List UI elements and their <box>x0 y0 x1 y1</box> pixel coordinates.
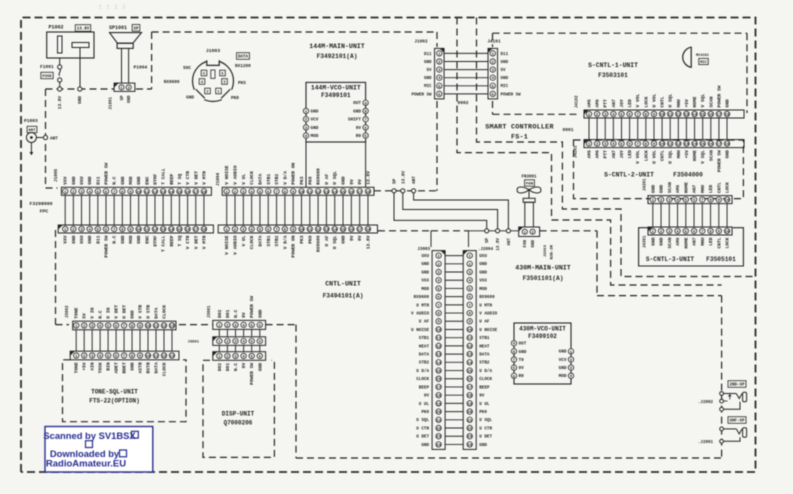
svg-text:ANT: ANT <box>412 176 417 184</box>
faint scan artifact top <box>98 4 125 11</box>
svg-text:13: 13 <box>324 191 329 195</box>
svg-text:12: 12 <box>162 325 167 329</box>
svg-text:11: 11 <box>307 228 312 232</box>
svg-text:5V: 5V <box>427 69 433 73</box>
svg-text:CNTL: CNTL <box>716 237 722 248</box>
svg-text:Q7000206: Q7000206 <box>224 419 253 426</box>
svg-text:GND: GND <box>341 235 347 244</box>
svg-text:AM5: AM5 <box>587 150 593 159</box>
svg-text:GND: GND <box>130 362 136 371</box>
svg-text:J2003: J2003 <box>544 244 548 257</box>
svg-text:V AUDIO: V AUDIO <box>411 311 429 316</box>
svg-text:MOD: MOD <box>128 176 134 185</box>
svg-text:12: 12 <box>316 191 321 195</box>
144M-MAIN-UNIT boundary (dashed) <box>46 32 438 191</box>
svg-text:23: 23 <box>467 436 472 440</box>
wire 13.8V to 430M <box>403 193 498 229</box>
svg-text:D02: D02 <box>217 363 223 372</box>
svg-text:18: 18 <box>366 191 371 195</box>
svg-text:13: 13 <box>467 354 472 358</box>
svg-text:PK0: PK0 <box>479 410 487 415</box>
fuse F1001 <box>40 64 62 87</box>
144M-VCO-UNIT F3499101 <box>303 82 368 142</box>
svg-text:S-CNTL-3-UNIT: S-CNTL-3-UNIT <box>646 256 695 263</box>
svg-text:CNTL: CNTL <box>660 150 666 161</box>
svg-text:U SQL: U SQL <box>479 418 492 423</box>
svg-text:24: 24 <box>436 444 441 448</box>
svg-text:V SQL: V SQL <box>700 93 706 107</box>
svg-text:F3504000: F3504000 <box>673 172 703 179</box>
svg-text:UXU: UXU <box>79 176 85 185</box>
svg-text:ENC: ENC <box>144 235 150 244</box>
svg-text:U MTR: U MTR <box>479 303 492 308</box>
svg-text:U AF: U AF <box>324 235 330 246</box>
svg-text:LED: LED <box>708 185 714 194</box>
svg-text:21: 21 <box>436 419 441 423</box>
connector J1005 (144M main, 18 pin) <box>54 163 211 196</box>
wire 144M-VCO to J1004 <box>306 142 366 187</box>
svg-text:GND: GND <box>186 96 194 101</box>
svg-text:2: 2 <box>206 90 208 94</box>
svg-text:BEEP: BEEP <box>169 174 175 185</box>
svg-text:STB2: STB2 <box>419 361 430 366</box>
svg-text:17: 17 <box>193 191 198 195</box>
svg-text:J4301: J4301 <box>644 235 648 248</box>
svg-text:SP: SP <box>133 27 139 31</box>
svg-text:J1004: J1004 <box>216 172 221 186</box>
svg-text:13.8V: 13.8V <box>58 96 63 110</box>
wires J3001 to J3501 <box>219 329 259 351</box>
svg-text:T CALL: T CALL <box>161 168 167 185</box>
svg-text:BDET: BDET <box>122 362 128 373</box>
svg-text:11: 11 <box>307 191 312 195</box>
430M-VCO-UNIT F3499102 <box>511 323 573 384</box>
svg-text:144M-VCO-UNIT: 144M-VCO-UNIT <box>311 85 361 92</box>
svg-text:MC4101: MC4101 <box>696 54 709 58</box>
svg-text:GND: GND <box>650 237 656 246</box>
svg-text:D01: D01 <box>225 363 231 372</box>
svg-text:MIC: MIC <box>700 61 708 65</box>
svg-text:U DET: U DET <box>122 305 128 319</box>
svg-text:13: 13 <box>684 143 689 147</box>
svg-text:POWER SW: POWER SW <box>104 235 110 257</box>
svg-text:16: 16 <box>436 378 441 382</box>
svg-text:GND: GND <box>421 270 429 275</box>
svg-text:T9: T9 <box>519 358 525 363</box>
svg-text:VXV: VXV <box>63 176 69 185</box>
svg-text:D01: D01 <box>225 309 231 318</box>
svg-text:JOY: JOY <box>619 150 625 159</box>
svg-text:F3501101(A): F3501101(A) <box>523 275 564 282</box>
FPC label F3298000 <box>29 201 52 215</box>
svg-text:F3503101: F3503101 <box>598 72 628 79</box>
svg-text:.J2002: .J2002 <box>698 401 714 405</box>
svg-text:POWER SW: POWER SW <box>104 163 110 185</box>
svg-text:B2B-2R: B2B-2R <box>551 244 555 259</box>
svg-text:V DET: V DET <box>114 305 120 319</box>
svg-text:15: 15 <box>467 370 472 374</box>
svg-text:13: 13 <box>161 191 166 195</box>
svg-text:20: 20 <box>467 411 472 415</box>
svg-text:POWER SW: POWER SW <box>249 363 255 385</box>
svg-text:V MTR: V MTR <box>201 171 207 185</box>
svg-text:GND: GND <box>421 443 429 448</box>
svg-text:MOD: MOD <box>128 235 134 244</box>
svg-text:6: 6 <box>203 72 205 76</box>
svg-text:SHIFT: SHIFT <box>348 118 362 123</box>
svg-text:U VOL: U VOL <box>651 93 657 107</box>
svg-text:50C: 50C <box>183 66 191 71</box>
svg-text:FTS-22(OPTION): FTS-22(OPTION) <box>89 398 139 405</box>
svg-text:BEEP: BEEP <box>479 385 490 390</box>
svg-text:10: 10 <box>660 113 665 117</box>
svg-text:18: 18 <box>725 143 730 147</box>
svg-text:U AF: U AF <box>419 320 430 325</box>
svg-text:CLOCK: CLOCK <box>479 377 492 382</box>
connector J3003 (24 pin) <box>411 248 445 449</box>
svg-text:HEAT: HEAT <box>479 344 490 349</box>
svg-text:S-CNTL-2-UNIT: S-CNTL-2-UNIT <box>604 172 654 179</box>
cable label 0001 <box>562 127 573 133</box>
svg-text:F3505101: F3505101 <box>706 256 736 263</box>
svg-text:F3499101: F3499101 <box>321 92 351 99</box>
DISP-UNIT boundary (dashed) <box>203 360 274 457</box>
svg-text:SCAN: SCAN <box>708 150 714 161</box>
svg-text:CLOCK: CLOCK <box>249 171 255 185</box>
wire SP to 430M <box>394 193 487 229</box>
svg-text:RX9600: RX9600 <box>479 295 495 300</box>
svg-text:17: 17 <box>436 386 441 390</box>
svg-text:9V: 9V <box>241 363 247 369</box>
CNTL connector row (mates J1004) <box>218 225 377 258</box>
svg-text:GND: GND <box>257 363 263 372</box>
svg-text:16: 16 <box>708 143 713 147</box>
svg-text:UXU: UXU <box>479 254 487 259</box>
svg-text:LOCK: LOCK <box>725 237 731 248</box>
pin labels J1003 <box>164 64 251 101</box>
svg-text:0002: 0002 <box>457 100 468 106</box>
svg-text:13.8V: 13.8V <box>77 28 90 32</box>
TONE-SQL-UNIT boundary (dashed) <box>63 360 187 422</box>
wires J3002 to TONE-SQL unit <box>76 330 172 351</box>
svg-text:V CTR: V CTR <box>185 235 191 249</box>
svg-text:TONE-SQL-UNIT: TONE-SQL-UNIT <box>91 389 138 396</box>
svg-text:12: 12 <box>153 191 158 195</box>
connector J3001 (6 pin) <box>208 296 266 330</box>
svg-text:U VOL: U VOL <box>651 150 657 164</box>
svg-text:16: 16 <box>349 228 354 232</box>
svg-text:U D/A: U D/A <box>479 369 492 374</box>
svg-text:D11: D11 <box>95 176 101 185</box>
svg-text:VXV: VXV <box>63 235 69 244</box>
S-CNTL-2-UNIT boundary (dashed) <box>574 140 744 199</box>
svg-text:GND: GND <box>311 126 319 131</box>
svg-text:AIN: AIN <box>90 362 96 371</box>
svg-text:14: 14 <box>692 113 697 117</box>
svg-text:GND: GND <box>501 77 509 81</box>
svg-text:ENC: ENC <box>144 176 150 185</box>
svg-text:BIN: BIN <box>106 362 112 371</box>
svg-text:DATA: DATA <box>419 353 430 358</box>
svg-text:DATA: DATA <box>238 56 249 60</box>
svg-text:CNTL: CNTL <box>660 96 666 107</box>
svg-text:GND: GND <box>257 309 263 318</box>
connector J4201 (10 pin) <box>644 178 733 204</box>
svg-text:RadioAmateur.EU: RadioAmateur.EU <box>46 459 126 470</box>
svg-text:21: 21 <box>467 419 472 423</box>
svg-text:+5V: +5V <box>684 150 690 159</box>
svg-text:11: 11 <box>436 337 441 341</box>
svg-text:T CALL: T CALL <box>161 235 167 252</box>
svg-text:HOME: HOME <box>683 237 689 248</box>
connector J3501 (6 pin, double row) <box>188 337 266 385</box>
svg-text:GND: GND <box>559 366 567 371</box>
unit title S-CNTL-1-UNIT <box>588 62 638 79</box>
svg-text:R9: R9 <box>519 374 525 379</box>
svg-text:U SQL: U SQL <box>332 171 338 185</box>
connector J4301 (10 pin) <box>644 227 733 249</box>
svg-text:16: 16 <box>185 191 190 195</box>
svg-text:AN7: AN7 <box>692 185 698 194</box>
wire speaker to J1001 <box>122 48 148 83</box>
svg-text:V STB: V STB <box>138 305 144 319</box>
svg-text:V DET: V DET <box>193 235 199 249</box>
svg-text:CNTL-UNIT: CNTL-UNIT <box>325 281 361 288</box>
svg-text:J3002: J3002 <box>66 305 70 318</box>
svg-text:V D/A: V D/A <box>282 171 288 185</box>
svg-text:10: 10 <box>299 228 304 232</box>
svg-text:1: 1 <box>217 90 219 94</box>
svg-text:V NOISE: V NOISE <box>224 235 230 255</box>
svg-text:18: 18 <box>202 228 207 232</box>
svg-text:V CTR: V CTR <box>185 171 191 185</box>
svg-text:V AUDIO: V AUDIO <box>233 235 239 255</box>
svg-text:V VOL: V VOL <box>635 150 641 164</box>
svg-text:DATA: DATA <box>479 353 490 358</box>
wire CNTL to J3003 <box>430 231 432 247</box>
svg-text:20: 20 <box>436 411 441 415</box>
node ANT <box>43 135 58 141</box>
svg-text:U SQL: U SQL <box>668 150 674 164</box>
svg-text:15: 15 <box>177 191 182 195</box>
svg-text:U CTR: U CTR <box>416 426 429 431</box>
svg-text:16: 16 <box>185 228 190 232</box>
svg-text:D11: D11 <box>424 53 432 57</box>
svg-text:LED: LED <box>708 237 714 246</box>
svg-text:RX1200: RX1200 <box>235 64 251 69</box>
svg-text:RX9600: RX9600 <box>316 235 322 252</box>
svg-text:GND: GND <box>659 185 665 194</box>
svg-text:22: 22 <box>467 427 472 431</box>
svg-text:15: 15 <box>341 191 346 195</box>
svg-text:9V: 9V <box>349 235 355 241</box>
svg-text:13.8V: 13.8V <box>365 171 371 185</box>
svg-text:PK0: PK0 <box>421 410 429 415</box>
TONE-SQL connector row <box>70 351 179 376</box>
svg-text:U D/A: U D/A <box>416 369 429 374</box>
svg-text:ASTB: ASTB <box>138 362 144 373</box>
svg-text:24: 24 <box>467 444 472 448</box>
svg-text:V DET: V DET <box>193 171 199 185</box>
svg-text:GND: GND <box>479 262 487 267</box>
svg-text:14: 14 <box>332 191 337 195</box>
svg-text:MHU: MHU <box>700 185 706 194</box>
node SP <box>392 178 398 193</box>
svg-text:13.8V: 13.8V <box>365 235 371 249</box>
svg-text:FS-1: FS-1 <box>511 134 528 142</box>
DATA jack J1003 (mini-DIN) <box>189 48 237 105</box>
svg-text:.J2001: .J2001 <box>698 441 714 445</box>
430M-MAIN-UNIT boundary (dashed) <box>378 231 722 458</box>
svg-text:STB2: STB2 <box>274 235 280 246</box>
svg-text:HEAT: HEAT <box>419 344 430 349</box>
svg-text:19: 19 <box>467 403 472 407</box>
speaker jack J2001 <box>698 427 747 445</box>
svg-text:MIC: MIC <box>501 85 509 89</box>
svg-text:DATA: DATA <box>154 362 160 373</box>
svg-text:GND: GND <box>353 109 361 114</box>
svg-text:U NOISE: U NOISE <box>479 328 497 333</box>
svg-text:OUT: OUT <box>519 342 527 347</box>
svg-text:MOD: MOD <box>311 134 319 139</box>
svg-text:UXU: UXU <box>79 235 85 244</box>
svg-text:GND: GND <box>136 235 142 244</box>
svg-text:18: 18 <box>202 191 207 195</box>
svg-text:SCAN: SCAN <box>708 96 714 107</box>
svg-text:12: 12 <box>162 355 167 359</box>
node ANT <box>412 176 418 193</box>
svg-text:F3499102: F3499102 <box>528 333 557 340</box>
svg-text:U UL: U UL <box>479 402 490 407</box>
svg-text:430M-VCO-UNIT: 430M-VCO-UNIT <box>519 326 566 333</box>
svg-text:12: 12 <box>316 228 321 232</box>
svg-text:DISP-UNIT: DISP-UNIT <box>222 411 255 418</box>
svg-text:9V: 9V <box>241 312 247 318</box>
svg-text:PK3: PK3 <box>299 235 305 244</box>
wire 13.8V from P1002 to fuse <box>59 58 61 65</box>
svg-text:LOCK: LOCK <box>725 182 731 193</box>
svg-text:V UL: V UL <box>241 235 247 246</box>
svg-text:11: 11 <box>668 113 673 117</box>
svg-text:U AF: U AF <box>324 174 330 185</box>
connector J1004 (144M main, 18 pin) <box>216 163 374 196</box>
svg-text:9V: 9V <box>479 394 485 399</box>
svg-text:SCAN: SCAN <box>667 182 673 193</box>
svg-text:N.C: N.C <box>112 235 118 244</box>
speaker jack J2002 <box>698 392 747 412</box>
svg-text:144M-MAIN-UNIT: 144M-MAIN-UNIT <box>309 43 364 50</box>
svg-text:FUSE: FUSE <box>42 75 52 79</box>
svg-text:T SQ: T SQ <box>177 235 183 246</box>
S-CNTL-1-UNIT boundary (dashed) <box>493 33 748 114</box>
svg-text:U AF: U AF <box>479 320 490 325</box>
svg-text:GND: GND <box>71 235 77 244</box>
svg-text:GND: GND <box>120 176 126 185</box>
svg-text:AM6: AM6 <box>675 237 681 246</box>
svg-text:N.C: N.C <box>112 176 118 185</box>
svg-text:U MTR: U MTR <box>416 303 429 308</box>
svg-text:VXX: VXX <box>479 279 487 284</box>
svg-text:CNTL: CNTL <box>716 182 722 193</box>
svg-text:MHU: MHU <box>700 237 706 246</box>
svg-text:15: 15 <box>436 370 441 374</box>
svg-text:AN7: AN7 <box>611 99 617 108</box>
svg-text:ANT: ANT <box>508 238 512 246</box>
svg-text:11: 11 <box>467 337 472 341</box>
svg-text:10: 10 <box>725 199 730 203</box>
svg-text:STB2: STB2 <box>479 361 490 366</box>
node GND <box>78 87 83 104</box>
svg-text:DTMF: DTMF <box>152 174 158 185</box>
S-CNTL-3-UNIT box <box>639 228 744 266</box>
wire ANT to 430M <box>414 193 509 229</box>
CNTL connector row (mates J1005) <box>58 225 213 258</box>
svg-text:V D/A: V D/A <box>282 235 288 249</box>
svg-text:HOME: HOME <box>692 150 698 161</box>
svg-text:U DET: U DET <box>416 435 429 440</box>
connector J3002 (13 pin) <box>66 305 176 330</box>
svg-text:SMART CONTROLLER: SMART CONTROLLER <box>485 124 554 132</box>
svg-text:CLOCK: CLOCK <box>161 362 167 376</box>
svg-text:17: 17 <box>467 386 472 390</box>
svg-text:GND: GND <box>87 176 93 185</box>
CNTL-UNIT boundary (dashed) <box>56 230 722 458</box>
svg-text:CLOCK: CLOCK <box>249 235 255 249</box>
svg-text:N.C: N.C <box>233 363 239 372</box>
svg-text:14: 14 <box>332 228 337 232</box>
svg-text:MOD: MOD <box>479 287 487 292</box>
wires FPC J1004 to CNTL row <box>227 195 368 225</box>
svg-text:D11: D11 <box>501 53 509 57</box>
svg-text:9V: 9V <box>356 126 362 131</box>
svg-text:18: 18 <box>366 228 371 232</box>
value label SP <box>132 25 140 32</box>
value label UHF-SP <box>728 417 746 424</box>
svg-text:14: 14 <box>436 362 441 366</box>
svg-text:GND: GND <box>501 61 509 65</box>
wire ANT to boundary node <box>36 137 43 139</box>
wires J4102 to J4202 <box>589 118 727 140</box>
svg-text:UXU: UXU <box>421 254 429 259</box>
svg-text:17: 17 <box>717 113 722 117</box>
svg-text:S-CNTL-1-UNIT: S-CNTL-1-UNIT <box>588 62 638 69</box>
svg-text:10: 10 <box>136 191 141 195</box>
svg-text:PKS: PKS <box>238 81 246 86</box>
svg-text:GND: GND <box>421 262 429 267</box>
connector J1001 <box>110 83 135 109</box>
svg-text:CLOCK: CLOCK <box>161 305 167 319</box>
svg-text:J3003: J3003 <box>417 248 430 252</box>
svg-text:U SQL: U SQL <box>668 93 674 107</box>
svg-text:+5V: +5V <box>684 99 690 108</box>
connector J4202 (18 pin) <box>575 140 745 173</box>
svg-text:16: 16 <box>708 113 713 117</box>
svg-text:F3298000: F3298000 <box>29 201 52 207</box>
svg-text:GND: GND <box>424 77 432 81</box>
svg-text:15: 15 <box>700 143 705 147</box>
unit title 430M-MAIN-UNIT <box>515 265 570 283</box>
svg-text:Downloaded by: Downloaded by <box>50 448 120 459</box>
svg-text:MHU: MHU <box>676 99 682 108</box>
value label 2ND-SP <box>728 381 746 388</box>
svg-text:STB2: STB2 <box>274 174 280 185</box>
svg-text:10: 10 <box>146 355 151 359</box>
svg-text:5V: 5V <box>501 69 507 73</box>
svg-text:10: 10 <box>467 329 472 333</box>
svg-text:N.C: N.C <box>233 309 239 318</box>
wires FPC J1005 to CNTL row <box>65 195 204 225</box>
svg-text:13: 13 <box>684 113 689 117</box>
